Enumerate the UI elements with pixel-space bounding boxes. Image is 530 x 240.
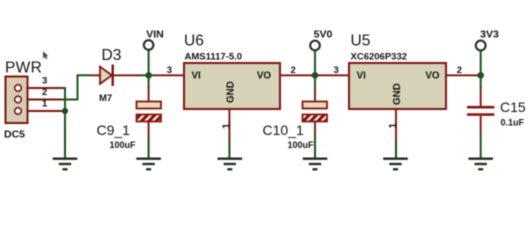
svg-text:100uF: 100uF (110, 140, 137, 150)
svg-text:GND: GND (225, 81, 236, 103)
svg-text:PWR: PWR (5, 59, 42, 76)
svg-text:C10_1: C10_1 (263, 122, 304, 138)
svg-text:100uF: 100uF (288, 140, 315, 150)
svg-text:5V0: 5V0 (314, 29, 333, 41)
svg-text:GND: GND (392, 83, 403, 105)
svg-text:M7: M7 (99, 93, 112, 104)
svg-text:3: 3 (167, 65, 172, 76)
svg-text:VIN: VIN (146, 29, 164, 41)
svg-text:2: 2 (291, 65, 296, 76)
svg-text:3: 3 (333, 65, 338, 76)
svg-text:U6: U6 (184, 33, 204, 50)
svg-text:VO: VO (257, 70, 272, 81)
svg-text:2: 2 (42, 87, 47, 98)
svg-text:C9_1: C9_1 (97, 122, 131, 138)
svg-text:VO: VO (425, 70, 440, 81)
svg-text:VI: VI (192, 70, 202, 81)
svg-text:1: 1 (42, 99, 48, 110)
svg-text:D3: D3 (102, 47, 122, 64)
svg-text:VI: VI (357, 70, 367, 81)
svg-text:3V3: 3V3 (480, 29, 499, 41)
svg-text:1: 1 (387, 123, 399, 129)
svg-text:U5: U5 (351, 33, 371, 50)
svg-text:DC5: DC5 (4, 128, 25, 140)
svg-text:XC6206P332: XC6206P332 (351, 52, 408, 63)
svg-text:0.1uF: 0.1uF (501, 118, 525, 128)
svg-text:1: 1 (220, 123, 232, 129)
svg-text:C15: C15 (500, 99, 526, 115)
svg-text:2: 2 (457, 65, 462, 76)
svg-text:AMS1117-5.0: AMS1117-5.0 (185, 52, 243, 63)
svg-text:3: 3 (42, 76, 47, 87)
